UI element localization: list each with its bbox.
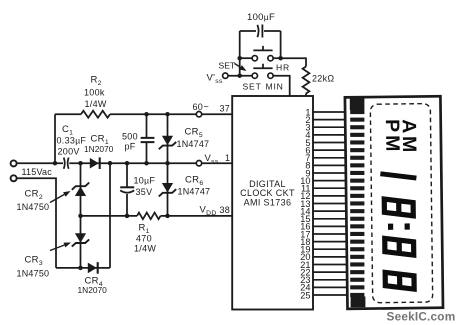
wire vertical x=110 mid to bottom rail bbox=[109, 163, 111, 268]
resistor R1 bbox=[137, 213, 161, 220]
LCD display module bbox=[345, 96, 443, 309]
svg-text:100k: 100k bbox=[84, 88, 105, 98]
wire Vss-prime terminal to SET contacts bbox=[228, 75, 252, 77]
resistor 22k bbox=[303, 67, 310, 94]
switch SET/MIN actuator bar bbox=[253, 64, 272, 68]
zener CR2 bbox=[75, 187, 86, 197]
capacitor 500pF bbox=[141, 138, 155, 142]
svg-text:115Vac: 115Vac bbox=[22, 167, 53, 177]
wire CR5 branch bbox=[167, 114, 169, 163]
svg-text:PM: PM bbox=[381, 119, 403, 155]
svg-text:25: 25 bbox=[300, 290, 310, 300]
LCD connector bottom pad bbox=[351, 297, 366, 308]
wire MIN contact to chip top bbox=[273, 76, 290, 96]
wire right: cap to HR contact bbox=[280, 31, 282, 58]
LCD digit 1 bbox=[380, 173, 416, 178]
zener CR6 bbox=[162, 183, 173, 193]
LCD digit 8 (first) bbox=[382, 196, 416, 219]
node: switch bus junctions bbox=[237, 56, 242, 61]
wire vertical CR2/CR3 branch bbox=[80, 163, 82, 268]
svg-text:1: 1 bbox=[225, 153, 230, 163]
op-amp U1: DIGITAL CLOCK CKT AMI S1736 bbox=[232, 96, 313, 310]
wire top row: bus to SET contact bbox=[240, 57, 253, 59]
svg-text:200V: 200V bbox=[58, 147, 80, 157]
LCD digit 8 (third) bbox=[383, 269, 417, 292]
LCD digit 8 (second) bbox=[382, 235, 416, 258]
wire 100uF right bbox=[264, 30, 281, 32]
svg-text:0.33µF: 0.33µF bbox=[57, 136, 87, 146]
svg-text:SET: SET bbox=[219, 61, 236, 71]
pin numbers 1-25 and wires to LCD bbox=[313, 111, 346, 113]
LCD colon bbox=[405, 223, 410, 229]
switch SET/MIN contacts bbox=[252, 73, 257, 78]
svg-text:38: 38 bbox=[220, 205, 231, 215]
svg-text:1/4W: 1/4W bbox=[134, 244, 156, 254]
terminal 60~ (pin 37) bbox=[196, 112, 201, 117]
wire left vertical: top rail to mid rail bbox=[54, 114, 56, 163]
capacitor C1 bbox=[64, 158, 65, 169]
svg-text:1N2070: 1N2070 bbox=[84, 144, 114, 154]
capacitor 100uF bbox=[257, 25, 258, 37]
svg-text:1N4747: 1N4747 bbox=[178, 187, 211, 197]
terminal Vss-prime bbox=[223, 73, 228, 78]
diode CR1 bbox=[90, 158, 99, 169]
svg-text:1N4750: 1N4750 bbox=[17, 269, 50, 279]
svg-text:1N4750: 1N4750 bbox=[17, 202, 50, 212]
node: top rail junctions bbox=[144, 112, 149, 117]
node: HR/22k junction bbox=[278, 56, 283, 61]
wire 22k to chip top bbox=[305, 94, 307, 97]
svg-text:37: 37 bbox=[220, 104, 231, 114]
wire 10uF branch lower bbox=[126, 194, 128, 216]
wire VDD rail left of R1 bbox=[81, 215, 138, 217]
wire VDD rail to chip pin 38 bbox=[161, 215, 233, 217]
wire 500pF branch lower bbox=[146, 143, 148, 164]
switch SET/HR contacts bbox=[252, 56, 257, 61]
node: bottom rail junction bbox=[78, 266, 83, 271]
wire 500pF branch upper bbox=[146, 114, 148, 137]
wire top rail (60Hz) from left vertical to chip pin 37 bbox=[55, 113, 81, 115]
svg-text:470: 470 bbox=[136, 234, 152, 244]
svg-text:1N4747: 1N4747 bbox=[177, 139, 210, 149]
terminal 115Vac upper bbox=[11, 160, 17, 166]
svg-text:35V: 35V bbox=[136, 187, 153, 197]
resistor R2 bbox=[81, 111, 110, 118]
wire top row: HR contact to 22k node bbox=[273, 57, 281, 59]
wire CR6 branch bbox=[167, 163, 169, 216]
terminal Vss (pin 1) bbox=[196, 161, 201, 166]
wire 100uF left bbox=[240, 30, 256, 32]
capacitor 10uF bbox=[120, 186, 134, 188]
svg-text:60: 60 bbox=[193, 102, 204, 112]
wire 22k top connection bbox=[281, 58, 306, 66]
svg-text:SeekIC.com: SeekIC.com bbox=[387, 309, 456, 323]
wire lower terminal down to bottom rail bbox=[17, 178, 56, 268]
terminal 115Vac lower bbox=[11, 175, 17, 181]
svg-text:SET: SET bbox=[243, 82, 262, 92]
svg-text:1N2070: 1N2070 bbox=[78, 285, 108, 295]
wire mid rail: C1 to chip pin Vss bbox=[69, 162, 232, 164]
svg-text:AMI S1736: AMI S1736 bbox=[244, 197, 292, 207]
svg-text:MIN: MIN bbox=[266, 82, 284, 92]
zener CR3 bbox=[75, 233, 86, 243]
svg-text:100µF: 100µF bbox=[247, 12, 275, 23]
LCD connector top pad bbox=[350, 98, 365, 110]
svg-text:10µF: 10µF bbox=[134, 176, 156, 186]
zener CR5 bbox=[162, 136, 173, 146]
wire top rail right of R2 bbox=[110, 113, 232, 115]
svg-text:500: 500 bbox=[122, 132, 138, 142]
svg-text:HR: HR bbox=[276, 63, 290, 73]
svg-text:22kΩ: 22kΩ bbox=[312, 74, 334, 84]
svg-text:~: ~ bbox=[204, 102, 210, 112]
LCD connector zebra stripes bbox=[350, 110, 364, 114]
svg-text:pF: pF bbox=[125, 142, 136, 152]
switch SET/HR actuator bar bbox=[253, 46, 272, 51]
wire bottom rail bbox=[56, 267, 110, 269]
wire mid rail: upper terminal to C1 bbox=[17, 162, 63, 164]
node: VDD rail junctions bbox=[78, 214, 83, 219]
svg-text:1/4W: 1/4W bbox=[85, 99, 107, 109]
wire 10uF branch upper bbox=[126, 163, 128, 187]
node: mid rail junctions bbox=[53, 161, 58, 166]
wire left switch bus vertical bbox=[239, 31, 241, 76]
diode CR4 bbox=[88, 263, 97, 274]
